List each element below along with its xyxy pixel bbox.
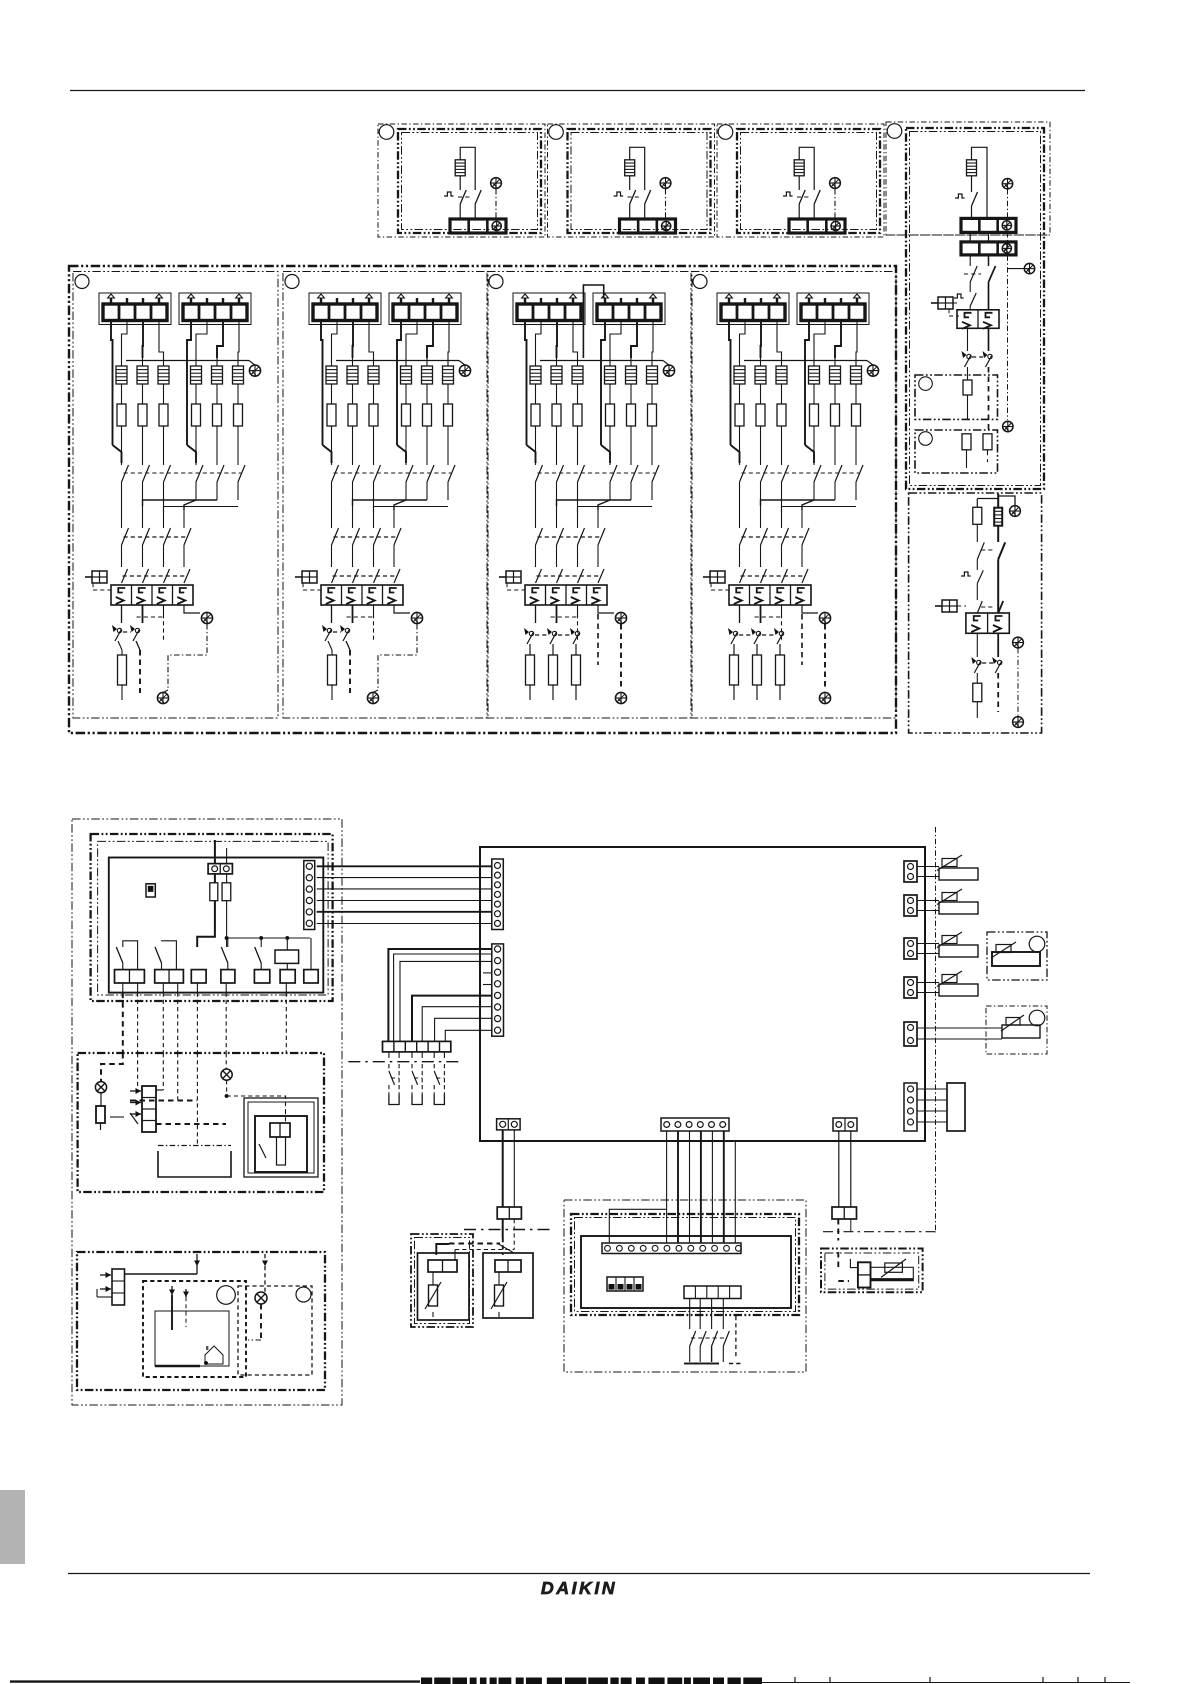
- house icon: [205, 1346, 223, 1364]
- earth: [819, 612, 830, 623]
- heater element: [455, 160, 465, 176]
- fuse: [348, 404, 357, 426]
- contactor K1M: [321, 585, 403, 605]
- field supplied parts box: [78, 1053, 324, 1192]
- connector X2M: [492, 944, 504, 1036]
- fuse: [627, 404, 636, 426]
- wire: [577, 384, 579, 404]
- wire: [556, 384, 558, 404]
- overcurrent protectors: [112, 625, 122, 641]
- contactor K2M: [966, 613, 1009, 633]
- earth: [1003, 421, 1013, 431]
- fuse: [117, 404, 126, 426]
- wire: [328, 641, 332, 650]
- manual operator: [85, 571, 107, 583]
- manual operator: [499, 571, 521, 583]
- heater bank circuit 2: [283, 272, 488, 719]
- wire: [373, 426, 375, 465]
- wire: [426, 426, 428, 465]
- earth: [663, 365, 674, 376]
- earth bus wire: [336, 360, 459, 362]
- connector X3M: [497, 1119, 520, 1130]
- terminal block X2M: [450, 219, 506, 233]
- wire: [799, 147, 814, 190]
- wires to options: [503, 1130, 851, 1243]
- wires: [917, 943, 939, 945]
- heater element: [216, 358, 218, 366]
- option PCB box: [571, 1214, 799, 1315]
- field wiring: [123, 983, 286, 1053]
- connector X7M: [904, 1083, 917, 1131]
- heater element: [405, 358, 407, 366]
- relay contact K3R: [227, 938, 229, 947]
- heater element: [813, 358, 815, 366]
- fuse: [529, 644, 531, 655]
- sheet reference circle: [489, 275, 503, 289]
- relay contact K4R: [260, 938, 262, 947]
- thermistor R1T: [937, 855, 978, 880]
- fuse: [606, 404, 615, 426]
- earth wire: [834, 189, 836, 219]
- terminal block row 2: [961, 242, 1016, 255]
- wire: [100, 1093, 102, 1106]
- earth bus wire: [126, 360, 249, 362]
- sheet reference circle: [549, 125, 564, 140]
- wire: [651, 426, 653, 465]
- bridge wire circuit 3: [583, 285, 603, 358]
- heater element: [625, 160, 635, 176]
- wire: [118, 641, 122, 650]
- earth wire: [1007, 189, 1009, 218]
- wire: [331, 426, 333, 465]
- thermistor R3T: [937, 932, 978, 957]
- connector X2A: [304, 861, 315, 930]
- overcurrent protectors: [728, 628, 738, 644]
- heater element: [237, 358, 239, 366]
- thermistor R4T: [937, 971, 978, 996]
- wire: [447, 384, 449, 404]
- indicator lamp H1P: [95, 1082, 106, 1093]
- sensor unit 2: [483, 1253, 533, 1318]
- fuse: [423, 404, 432, 426]
- wire: [216, 426, 218, 465]
- contactor main contacts: [122, 569, 128, 583]
- earth bus wire: [744, 360, 867, 362]
- wires: [162, 1053, 164, 1090]
- earth: [819, 692, 830, 703]
- fuse: [327, 404, 336, 426]
- wire: [976, 499, 978, 508]
- thermistor: [491, 1282, 507, 1309]
- contactor K1M: [111, 585, 193, 605]
- thermal protector contact: [444, 192, 454, 196]
- heater element: [781, 358, 783, 366]
- wire: [426, 384, 428, 404]
- fuse: [963, 380, 972, 395]
- terminal strip X5M: [383, 1041, 451, 1052]
- wire: [535, 384, 537, 404]
- earth net: [1017, 648, 1019, 716]
- manual operator: [935, 600, 957, 612]
- wire: [1008, 268, 1025, 270]
- aux contact: [110, 1116, 124, 1118]
- heater tape box A: [915, 375, 998, 419]
- terminal block X4M: [179, 293, 251, 325]
- room volume: [155, 1311, 229, 1366]
- user interface box: [91, 834, 333, 1001]
- wire: [834, 384, 836, 404]
- heater option box 2: [548, 124, 715, 237]
- output contacts: [689, 1299, 691, 1330]
- connector R4T: [904, 977, 917, 998]
- contactor contacts row 1: [536, 465, 543, 482]
- wire: [760, 426, 762, 465]
- wire: [997, 673, 999, 712]
- connector X6M: [833, 1118, 857, 1131]
- fuse: [192, 404, 201, 426]
- sheet reference circle: [887, 124, 902, 139]
- wires: [917, 900, 939, 902]
- heater element: [121, 358, 123, 366]
- option box 4 outer: [886, 122, 1050, 235]
- fuse: [976, 673, 978, 683]
- earth: [615, 612, 626, 623]
- option PCB enclosure: [564, 1200, 806, 1372]
- thermistor: [992, 952, 1040, 966]
- wires: [525, 321, 527, 359]
- fuse: [756, 644, 758, 655]
- wires: [535, 605, 537, 623]
- terminal block X3M: [513, 293, 585, 325]
- terminal block X2M: [789, 219, 845, 233]
- earth net: [378, 624, 417, 690]
- contactor K1M: [957, 310, 999, 329]
- heater element: [535, 358, 537, 366]
- heater element: [577, 358, 579, 366]
- wire: [556, 426, 558, 465]
- heater element: [426, 358, 428, 366]
- thermistor: [425, 1282, 441, 1309]
- wire: [352, 384, 354, 404]
- contactor K1M: [729, 585, 811, 605]
- wire: [967, 367, 969, 380]
- fuse: [852, 404, 861, 426]
- fuse: [983, 434, 992, 450]
- fuse: [234, 404, 243, 426]
- field boundary: [348, 1061, 462, 1063]
- heater element: [163, 358, 165, 366]
- fuse: [328, 655, 337, 685]
- terminal block X3M: [717, 293, 789, 325]
- heater element: [556, 358, 558, 366]
- contactor main contacts: [332, 569, 338, 583]
- fuse: [962, 434, 971, 450]
- heater element: [195, 358, 197, 366]
- wire: [971, 176, 973, 192]
- fuse: [369, 404, 378, 426]
- wires: [331, 605, 333, 623]
- wires: [353, 500, 428, 506]
- wires: [121, 605, 123, 623]
- wire: [447, 426, 449, 465]
- interconnection wires: [317, 865, 492, 867]
- wire: [331, 384, 333, 404]
- wires: [321, 321, 323, 359]
- wire: [460, 147, 475, 190]
- contactor contacts row 1: [332, 465, 339, 482]
- earth: [201, 612, 212, 623]
- terminal X3A: [115, 970, 145, 983]
- connector X10M: [497, 1207, 521, 1219]
- earth: [491, 178, 502, 189]
- terminal block X3M: [309, 293, 381, 325]
- earth: [459, 365, 470, 376]
- connector X1A: [208, 864, 232, 874]
- field contacts: [388, 1052, 390, 1058]
- fuse: [779, 644, 781, 655]
- wires: [917, 982, 939, 984]
- heater element: [609, 358, 611, 366]
- field component box: [158, 1151, 231, 1177]
- pump switch box: [255, 1116, 307, 1172]
- heater element: [967, 160, 977, 176]
- contacts: [977, 542, 984, 559]
- relay contact K2R: [162, 941, 177, 970]
- connector X1M: [492, 859, 504, 930]
- wires to low voltage terminals: [388, 949, 491, 1041]
- remote controller connector: [112, 1269, 125, 1305]
- wire: [969, 282, 971, 292]
- wire: [101, 1053, 123, 1082]
- wire: [352, 426, 354, 465]
- heater element: [760, 358, 762, 366]
- earth: [660, 178, 671, 189]
- heater option box 3: [717, 124, 884, 237]
- fuse: [552, 644, 554, 655]
- terminal block X4M: [389, 293, 461, 325]
- wires: [557, 500, 632, 506]
- wires: [969, 232, 971, 242]
- wire: [373, 384, 375, 404]
- connector R5T: [904, 1022, 917, 1046]
- heater option box 1: [378, 124, 545, 237]
- wire: [195, 426, 197, 465]
- fuse: [575, 644, 577, 655]
- lamp: [264, 1266, 266, 1292]
- wire: [405, 384, 407, 404]
- wires: [729, 321, 731, 359]
- terminal X7A: [254, 970, 269, 983]
- wire: [237, 426, 239, 465]
- footer rule: [68, 1573, 1090, 1575]
- interface unit: [947, 1083, 965, 1131]
- terminal X5A: [191, 970, 206, 983]
- sheet reference circle: [285, 275, 299, 289]
- heater bank circuit 4: [691, 272, 896, 719]
- wires: [761, 500, 836, 506]
- heater element: [651, 358, 653, 366]
- wire: [630, 384, 632, 404]
- heater element: [447, 358, 449, 366]
- wire: [739, 426, 741, 465]
- thermal fuse contact: [475, 190, 481, 204]
- wire: [216, 384, 218, 404]
- manual operator: [295, 571, 317, 583]
- sensor connectors: [904, 827, 1047, 1233]
- thermal protector contact: [614, 192, 624, 196]
- thermal protector: [961, 572, 971, 576]
- terminal block row 1: [961, 218, 1016, 232]
- sheet reference circle: [75, 275, 89, 289]
- manual operator: [703, 571, 725, 583]
- option box 4 switch box: [906, 128, 1044, 489]
- fuse: [444, 404, 453, 426]
- wire: [813, 426, 815, 465]
- wire: [237, 384, 239, 404]
- wire: [629, 176, 631, 190]
- earth net: [620, 624, 622, 690]
- fuse: [159, 404, 168, 426]
- heater element: [855, 358, 857, 366]
- room thermostat box 2: [238, 1286, 312, 1375]
- wires: [976, 524, 978, 542]
- thermal fuse contact: [814, 190, 820, 204]
- contact row: [977, 601, 982, 613]
- wire: [136, 641, 140, 650]
- fuse F1U: [210, 883, 218, 901]
- terminal X8A: [280, 970, 295, 983]
- wires: [111, 321, 113, 359]
- contactor contacts row 1: [122, 465, 129, 482]
- wire: [976, 559, 978, 570]
- wire: [834, 426, 836, 465]
- wire: [163, 426, 165, 465]
- wire: [405, 426, 407, 465]
- heater tape box B: [915, 430, 998, 473]
- wire: [798, 176, 800, 190]
- connector: [270, 1123, 290, 1137]
- top rule: [70, 90, 1085, 92]
- sheet reference circle: [379, 125, 394, 140]
- connector R3T: [904, 938, 917, 959]
- wire: [972, 147, 988, 218]
- wire: [121, 426, 123, 465]
- svg-text:DAIKIN: DAIKIN: [541, 1578, 617, 1598]
- indicator lamp H2P: [225, 1053, 227, 1069]
- signal bus: [227, 937, 310, 939]
- heater bank enclosure: [69, 266, 896, 733]
- wire: [459, 204, 461, 219]
- terminal block X2M: [620, 219, 676, 233]
- wire: [195, 384, 197, 404]
- earth net wire: [1007, 232, 1009, 420]
- wires: [976, 633, 978, 657]
- relay contact K1R: [123, 941, 138, 970]
- thermal protector: [955, 194, 965, 198]
- earth: [411, 612, 422, 623]
- heater element: [994, 508, 1002, 526]
- wire: [801, 614, 803, 665]
- sheet reference circle: [693, 275, 707, 289]
- contactor contacts row 2: [331, 511, 333, 528]
- earth bus wire: [540, 360, 663, 362]
- actuator bar: [277, 1137, 286, 1165]
- main PCB box A1P: [480, 847, 925, 1141]
- input arrows: [100, 1272, 111, 1278]
- terminal X6A: [221, 970, 235, 983]
- fuse: [96, 1106, 105, 1123]
- terminal X9A: [310, 938, 312, 970]
- heater bank circuit 3: [487, 272, 692, 719]
- connector X1A: [602, 1243, 741, 1254]
- earth net: [824, 624, 826, 690]
- heater element: [142, 358, 144, 366]
- earth: [1002, 179, 1012, 189]
- connector: [837, 1252, 839, 1271]
- wire: [137, 1053, 139, 1086]
- wire: [163, 384, 165, 404]
- heater element: [630, 358, 632, 366]
- heater element: [352, 358, 354, 366]
- manual operator: [931, 297, 953, 309]
- wire: [739, 384, 741, 404]
- fuse: [118, 655, 127, 685]
- fuse: [213, 404, 222, 426]
- heater bank circuit 1: [73, 272, 278, 719]
- wire: [781, 384, 783, 404]
- option sensor box: [411, 1234, 473, 1327]
- terminal block X4M: [797, 293, 869, 325]
- earth net: [168, 624, 207, 690]
- fuse: [810, 404, 819, 426]
- thermistor R2T: [937, 889, 978, 914]
- wires: [197, 901, 215, 947]
- earth: [367, 692, 378, 703]
- wires: [143, 500, 218, 506]
- pump interface double box: [244, 1098, 318, 1177]
- wire: [760, 384, 762, 404]
- wires: [739, 605, 741, 623]
- option sensor box: [821, 1249, 923, 1293]
- heater element: [331, 358, 333, 366]
- wires: [917, 1027, 1002, 1029]
- fuse: [402, 404, 411, 426]
- earth: [615, 692, 626, 703]
- contact K5: [969, 255, 971, 266]
- wire: [609, 426, 611, 465]
- wire: [125, 1273, 198, 1275]
- earth: [249, 365, 260, 376]
- connector R2T: [904, 895, 917, 916]
- fuse F2U: [222, 883, 231, 901]
- overcurrent protectors: [322, 625, 332, 641]
- sheet reference circle: [718, 125, 733, 140]
- earth wire: [495, 189, 497, 219]
- wire: [142, 384, 144, 404]
- terminal X4A: [155, 970, 184, 983]
- earth: [1024, 263, 1034, 273]
- wire: [813, 384, 815, 404]
- wire: [630, 426, 632, 465]
- overcurrent protectors: [971, 657, 981, 673]
- room thermostat box 1: [143, 1281, 246, 1377]
- fuse: [531, 404, 540, 426]
- thermal protector contact: [783, 192, 793, 196]
- boundary line: [935, 827, 937, 1233]
- earth: [867, 365, 878, 376]
- contactor K1M: [525, 585, 607, 605]
- contactor main contacts: [536, 569, 542, 583]
